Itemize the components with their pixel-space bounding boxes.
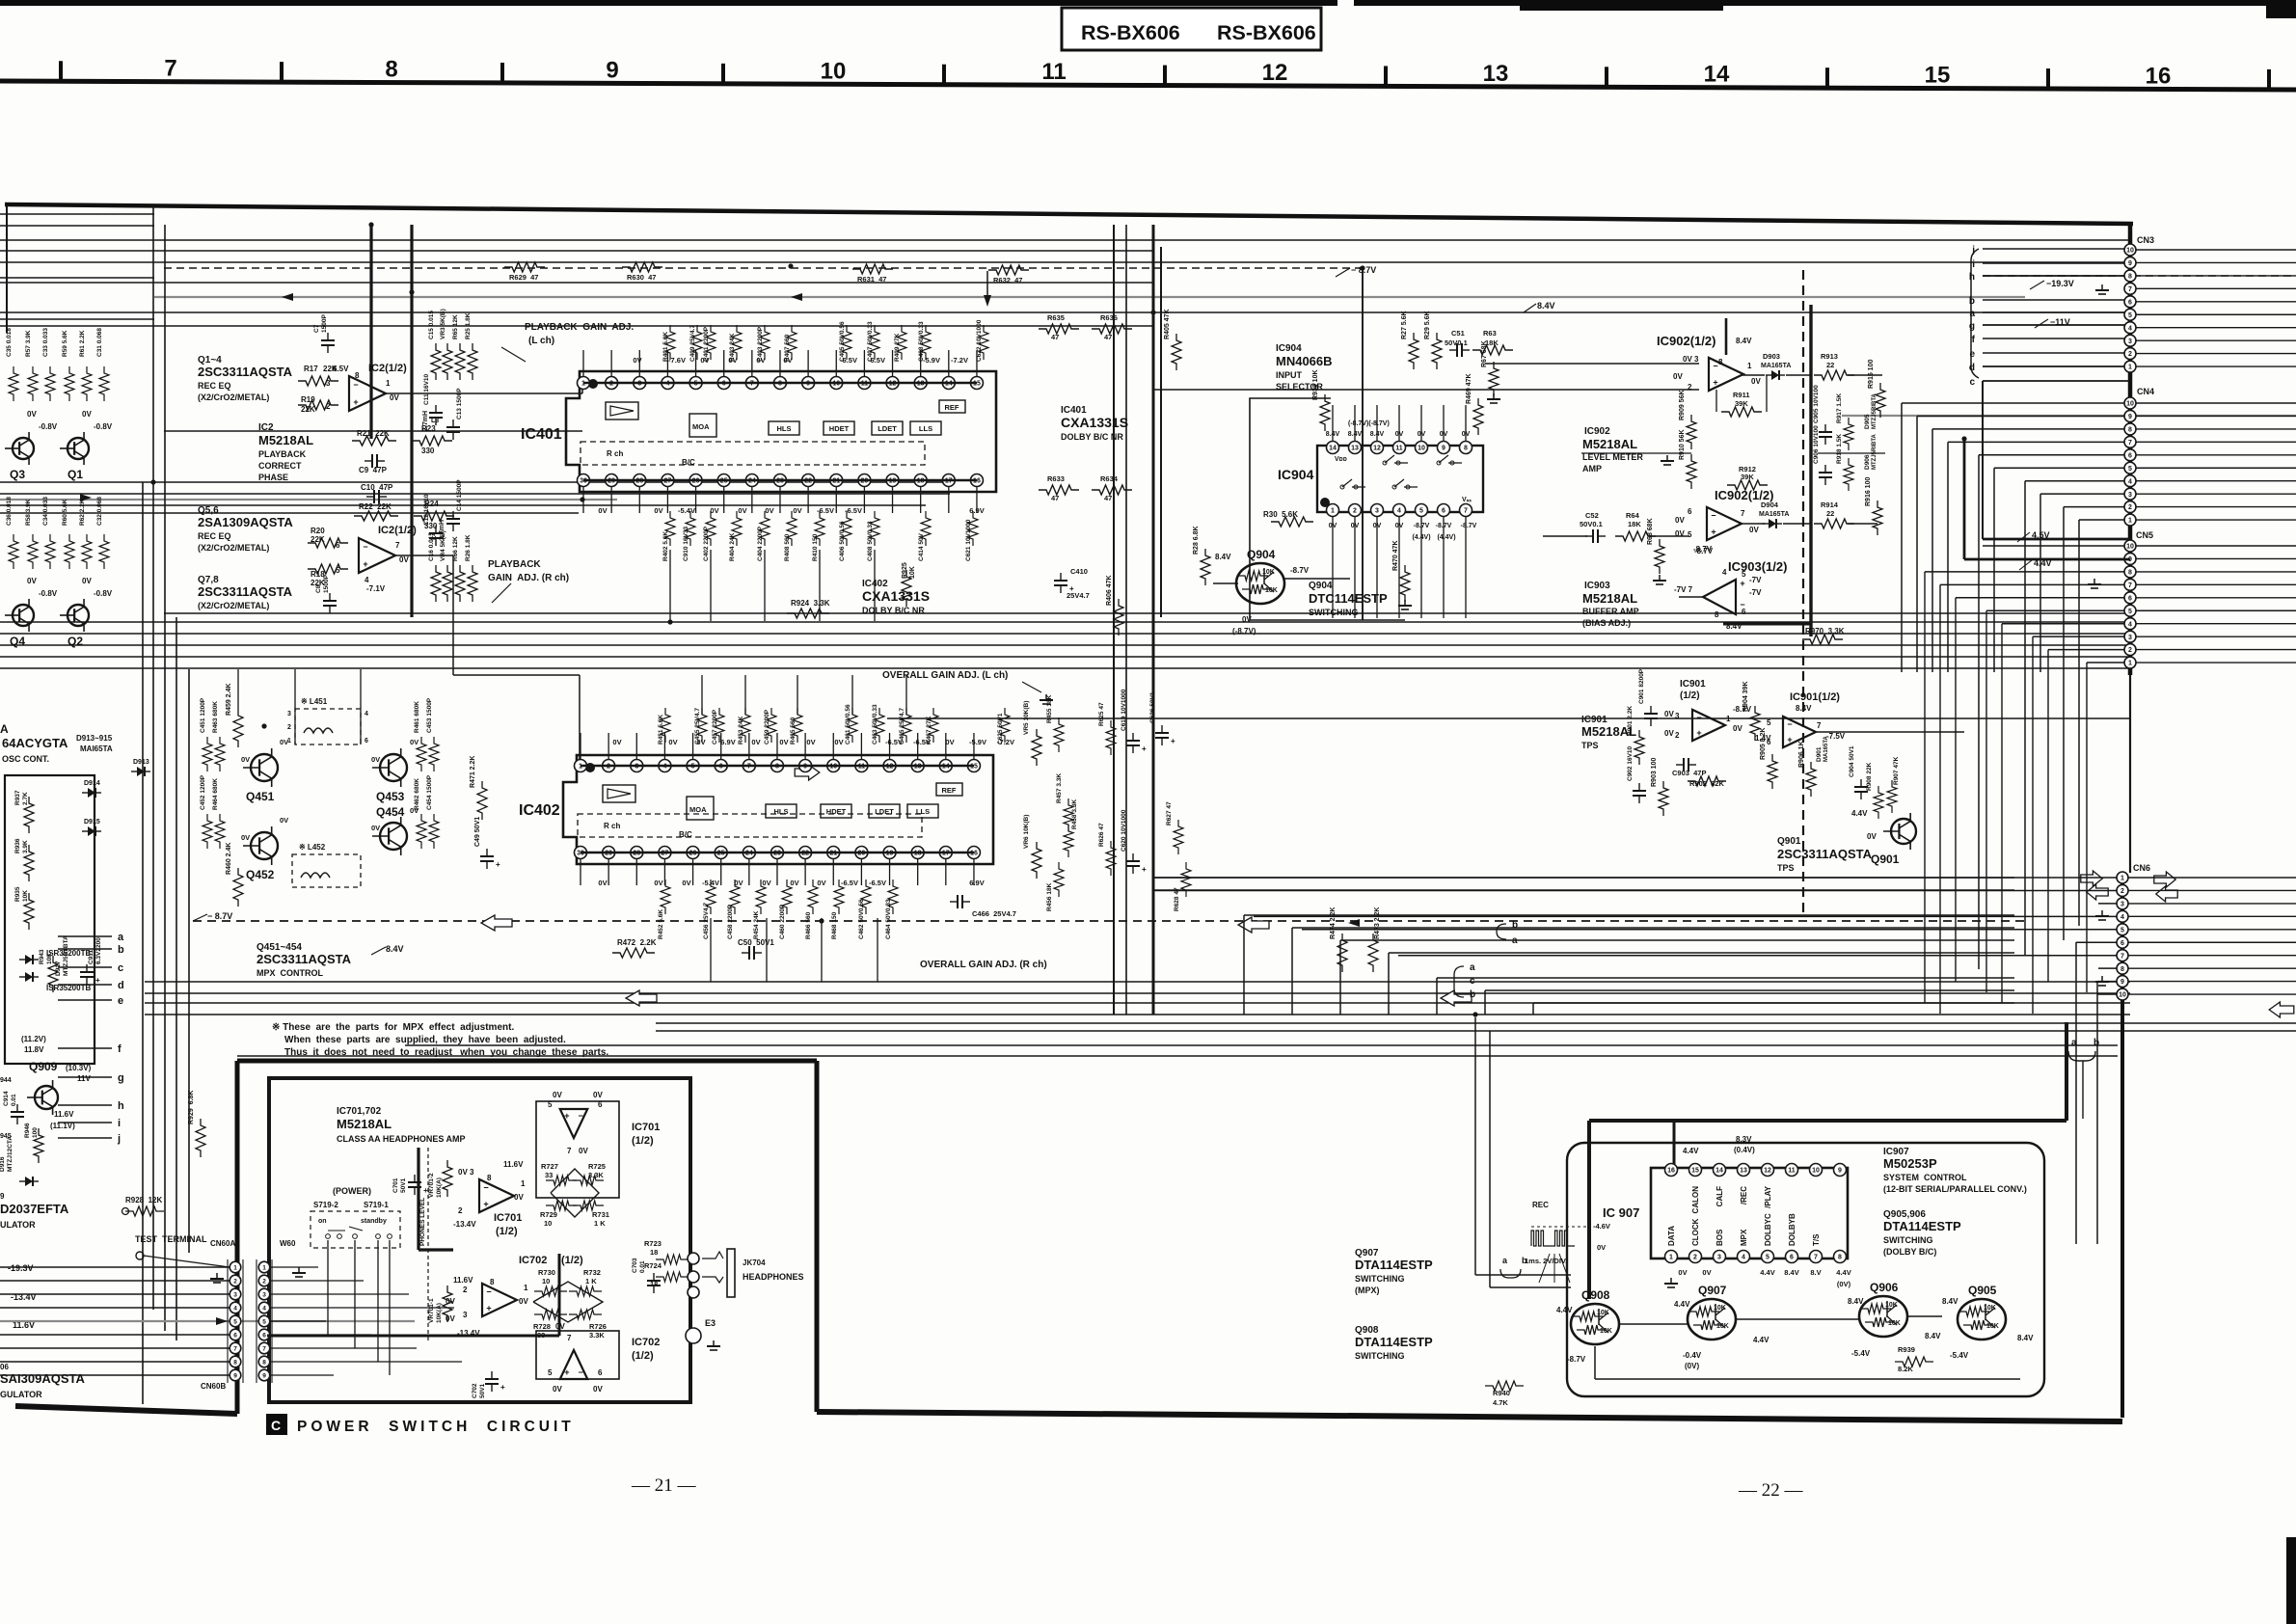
connector CN6 pin 8 (2117, 962, 2128, 974)
capacitor C620 (1132, 866, 1134, 874)
IC401 pin 12 (886, 377, 899, 390)
capacitor C9 (376, 454, 378, 468)
IC402 pin 25 stub (720, 859, 722, 886)
resistor cluster top C35 0.018 (9, 366, 18, 401)
op-amp IC901 second half (1783, 717, 1816, 747)
svg-text:+: + (1171, 737, 1175, 745)
vertical wire above IC402 x940 (905, 675, 907, 715)
right edge wire y312 (2136, 301, 2296, 303)
svg-text:Q909: Q909 (29, 1060, 58, 1073)
svg-text:R904 39K: R904 39K (1742, 681, 1749, 712)
svg-text:CN60A: CN60A (210, 1239, 235, 1248)
IC401 pin 23 stub (779, 487, 781, 514)
open arrow mpx left (481, 915, 512, 931)
svg-text:M50253P: M50253P (1883, 1156, 1937, 1171)
IC402 pin 7 (743, 760, 755, 772)
svg-text:1: 1 (233, 1265, 237, 1272)
svg-text:C408 50V0.33: C408 50V0.33 (867, 521, 874, 561)
svg-text:R64: R64 (1626, 511, 1640, 520)
resistor cluster mid R58 3.9K (28, 534, 38, 569)
connector CN3 pin 2 (2124, 348, 2136, 360)
svg-text:22K: 22K (323, 365, 338, 373)
transistor Q907 bar (1715, 1304, 1716, 1320)
svg-text:330: 330 (421, 447, 435, 455)
transistor Q453 base (372, 767, 389, 769)
ground CN5 pin8 (2091, 587, 2098, 589)
transistor Q452 bar (258, 837, 260, 853)
wire q908 drop b (1489, 1031, 1491, 1287)
svg-text:IC902: IC902 (1584, 426, 1610, 437)
capacitor C904 (1860, 792, 1862, 799)
IC907 pin 1 (1665, 1251, 1678, 1263)
svg-text:(X2/CrO2/METAL): (X2/CrO2/METAL) (198, 601, 269, 610)
IC907 pin 16 (1665, 1164, 1678, 1177)
IC402 pin 15 (967, 760, 980, 772)
connector CN6 pin 9 (2117, 976, 2128, 988)
svg-text:Thus it does not need to: Thus it does not need to readjust when y… (284, 1047, 608, 1058)
ground CN6 pin8 (2095, 981, 2109, 983)
wire into CN4 pin 9 (1917, 415, 2124, 417)
wire into CN5 pin 1 (2087, 662, 2124, 663)
resistor R20 (308, 538, 348, 548)
component C454 1500P (429, 814, 439, 849)
component C460 2200P (782, 880, 792, 914)
svg-text:R473 2.2K: R473 2.2K (1374, 907, 1381, 939)
ground CN60A (216, 1273, 218, 1279)
svg-text:8: 8 (385, 57, 397, 83)
IC907 pin 11 (1786, 1164, 1798, 1177)
IC401 pin 4 (662, 377, 674, 390)
bus wire y681 (0, 656, 2130, 658)
inductor L452 coil (301, 873, 330, 878)
wire W60 pin 5 (270, 1320, 326, 1322)
bus wire y222 left (0, 213, 154, 215)
wire R64 to opamp (1649, 535, 1689, 537)
svg-text:(12-BIT SERIAL/PARALLEL CONV.): (12-BIT SERIAL/PARALLEL CONV.) (1883, 1184, 2027, 1194)
capacitor C466 (962, 901, 970, 903)
wire IC904 pin5 down (1420, 517, 1422, 618)
svg-text:C456 25V4.7: C456 25V4.7 (703, 903, 710, 939)
node i stub (58, 1122, 112, 1123)
resistor R730 (534, 1286, 567, 1296)
IC402 REF block (936, 783, 962, 796)
svg-text:RS-BX606: RS-BX606 (1217, 21, 1316, 44)
svg-text:C458 2200P: C458 2200P (727, 904, 734, 939)
vertical wire above IC402 x773 (744, 675, 746, 715)
capacitor C410 (1060, 585, 1062, 593)
IC401 pin 3 (634, 377, 646, 390)
wire opamp1 out (1742, 374, 1765, 376)
svg-text:SWITCHING: SWITCHING (1355, 1351, 1405, 1361)
resistor R626 (1106, 841, 1116, 876)
svg-text:Vᴅᴅ: Vᴅᴅ (1335, 456, 1347, 463)
connector W60 pin 1 (258, 1261, 270, 1273)
bold wire ic907 top (1589, 1119, 2066, 1123)
transistor Q454 (380, 823, 407, 850)
IC402 pin 27 (659, 847, 671, 859)
resistor R907 (1887, 780, 1897, 813)
wire W60 pin 9 (270, 1374, 334, 1376)
IC402 pin 3 stub (635, 733, 637, 760)
svg-text:0V: 0V (553, 1091, 562, 1099)
bus wire y512 (0, 493, 950, 495)
svg-text:C410: C410 (1070, 567, 1088, 576)
svg-text:h: h (1969, 272, 1975, 283)
svg-text:−: − (1713, 361, 1717, 370)
component C455 25V4.7 (697, 708, 707, 743)
component C457 2200P (715, 708, 724, 743)
svg-text:e: e (1969, 349, 1975, 360)
svg-text:-0.8V: -0.8V (39, 589, 58, 598)
svg-text:IC402: IC402 (519, 802, 560, 819)
svg-text:IC901(1/2): IC901(1/2) (1790, 691, 1840, 703)
svg-text:+: + (486, 1304, 491, 1313)
svg-text:6: 6 (598, 1368, 603, 1377)
resistor R22 22K (354, 511, 398, 521)
IC402 pin 2 (603, 760, 615, 772)
transistor Q907 (1715, 1308, 1725, 1315)
svg-text:M5218AL: M5218AL (337, 1117, 392, 1131)
resistor R724 (656, 1272, 689, 1282)
vertical drop CN4 pin 8 (1931, 429, 1933, 672)
connector W60 pin 8 (258, 1356, 270, 1367)
svg-text:(11.2V): (11.2V) (21, 1035, 46, 1043)
svg-text:3: 3 (1675, 712, 1680, 720)
connector CN60A pin 7 (230, 1342, 241, 1354)
wire IC904 pin11 up (1398, 405, 1400, 441)
transistor Q905 R2 (1963, 1320, 1992, 1330)
IC401 pin 10 (830, 377, 843, 390)
IC402 outline (563, 755, 993, 864)
capacitor C8 (329, 606, 331, 613)
IC401 pin 19 stub (892, 487, 894, 514)
ruler tick 2 (500, 63, 504, 83)
svg-text:11: 11 (1041, 59, 1066, 85)
R928 end circle (122, 1208, 129, 1215)
wire switch drop x404 (389, 1240, 391, 1375)
svg-text:64ACYGTA: 64ACYGTA (2, 736, 68, 750)
IC904 pin 6 (1438, 504, 1450, 517)
switch arm (349, 1227, 363, 1231)
power block outer box top edge (237, 1059, 817, 1064)
capacitor C11 (435, 405, 437, 413)
component R403 24K (732, 325, 742, 360)
svg-text:GULATOR: GULATOR (0, 1390, 42, 1399)
transistor Q3 emit leg (28, 457, 30, 465)
diode D915 (82, 830, 88, 832)
vertical drop CN5 pin 5 (1985, 610, 1987, 992)
pointer 4.5V (2017, 532, 2030, 542)
component R66 12K (455, 565, 465, 602)
connector CN6 pin 2 (2117, 884, 2128, 896)
IC402 pin 1 (575, 760, 587, 772)
IC401 pin 30 stub (582, 487, 584, 514)
IC402 pin 3 (631, 760, 643, 772)
bold vertical wire x1196 (1152, 225, 1155, 1015)
bus wire y1084 (405, 1044, 2118, 1046)
diode isr1 (19, 959, 25, 961)
svg-text:4: 4 (1397, 508, 1401, 515)
IC402 pin 12 stub (889, 733, 891, 760)
svg-text:R627 47: R627 47 (1166, 801, 1173, 826)
svg-text:b: b (1512, 920, 1518, 931)
svg-text:R635: R635 (1047, 313, 1065, 322)
connector CN5 pin 4 (2124, 618, 2136, 630)
ground CN6 pin8 (2098, 985, 2106, 987)
svg-text:IC702: IC702 (519, 1255, 547, 1266)
svg-text:Q453: Q453 (376, 790, 405, 803)
right edge wire y660 (2136, 636, 2296, 637)
IC402 pin 5 stub (692, 733, 694, 760)
resistor R631 (852, 264, 893, 274)
wire into CN4 pin 1 (2079, 519, 2124, 521)
svg-text:C904 50V1: C904 50V1 (1849, 745, 1855, 777)
ruler tick 7 (1605, 67, 1608, 87)
svg-text:W60: W60 (280, 1239, 296, 1248)
svg-text:CALF: CALF (1715, 1186, 1724, 1206)
resistor cluster top R59 5.6K (65, 366, 74, 401)
svg-text:C52: C52 (1585, 511, 1599, 520)
svg-text:LEVEL METER: LEVEL METER (1582, 452, 1643, 462)
svg-text:CALON: CALON (1691, 1186, 1700, 1214)
svg-text:22: 22 (1826, 361, 1834, 369)
transistor Q905 (1958, 1299, 2006, 1340)
svg-text:R939: R939 (1898, 1345, 1915, 1354)
junction dot 0 (409, 289, 414, 294)
component R464 680K (215, 814, 225, 849)
switch symbol 1 (328, 1230, 345, 1232)
component R408 560 (787, 511, 797, 546)
transistor Q453 emit (389, 771, 401, 779)
svg-text:S719-1: S719-1 (364, 1201, 389, 1209)
component C406 50V0.56 (842, 511, 851, 546)
svg-text:BOS: BOS (1715, 1229, 1724, 1246)
svg-text:IC2(1/2): IC2(1/2) (368, 363, 407, 374)
resistor R27 (1409, 333, 1418, 369)
diode D915 (95, 830, 101, 832)
junction dot 2 (788, 263, 793, 268)
IC402 pin 8 stub (776, 733, 778, 760)
transistor Q904 (1264, 572, 1274, 580)
svg-text:DTA114ESTP: DTA114ESTP (1883, 1219, 1961, 1233)
svg-text:D901: D901 (1816, 746, 1823, 762)
transistor Q454 emit (389, 840, 401, 848)
resistor R935 (24, 893, 34, 930)
capacitor C52 (1592, 529, 1594, 543)
svg-text:0.01: 0.01 (639, 1260, 646, 1273)
wire fan CN6 5 (1389, 952, 2014, 954)
wire q908-q907 (1619, 1323, 1688, 1325)
capacitor C911 (80, 971, 94, 973)
connector CN3 pin 8 (2124, 270, 2136, 282)
svg-text:A: A (0, 722, 9, 736)
right edge wire y444 (2136, 428, 2296, 430)
svg-text:7: 7 (2128, 582, 2132, 589)
svg-text:8.2K: 8.2K (1898, 1365, 1913, 1373)
svg-text:3: 3 (1375, 508, 1379, 515)
bottom thick border left segment (15, 1406, 237, 1414)
waveform top dash (1531, 1226, 1589, 1228)
svg-text:a: a (2071, 1038, 2077, 1048)
transistor Q908 bar (1598, 1309, 1600, 1325)
ground R68 (1656, 583, 1663, 585)
transistor Q905 (1985, 1319, 1995, 1328)
svg-text:2.7K: 2.7K (22, 792, 29, 805)
wire opamp2 out (1740, 523, 1765, 525)
IC907 pin 2 (1689, 1251, 1702, 1263)
resistor R67 (1489, 362, 1499, 396)
IC402 pin 16 (967, 847, 980, 859)
svg-text:C16 0.015: C16 0.015 (428, 532, 435, 561)
svg-text:R908 22K: R908 22K (1866, 762, 1873, 791)
inductor L451 coil (304, 728, 333, 733)
svg-text:D915: D915 (84, 819, 100, 826)
svg-text:C402 2200P: C402 2200P (703, 526, 710, 561)
capacitor C51 (1456, 343, 1458, 357)
wire letter b (1983, 299, 2130, 301)
svg-text:R726: R726 (589, 1322, 607, 1331)
IC402 pin 9 (799, 760, 812, 772)
IC401 pin 4 stub (666, 350, 668, 377)
diode D904 (1769, 519, 1776, 528)
svg-text:12: 12 (1262, 60, 1288, 86)
ground CN6 pin3 (2101, 910, 2103, 916)
ground W60 pin1 (295, 1276, 303, 1278)
IC402 pin 14 stub (945, 733, 947, 760)
svg-text:REC EQ: REC EQ (198, 381, 231, 391)
ground R470 (1404, 600, 1406, 606)
capacitor C902 (1633, 795, 1646, 797)
right edge wire y673 (2136, 649, 2296, 651)
connector CN3 pin 9 (2124, 257, 2136, 268)
svg-text:d: d (1969, 363, 1975, 373)
IC401 pin 8 stub (779, 350, 781, 377)
svg-text:7: 7 (2128, 440, 2132, 447)
ground E3 (713, 1340, 715, 1346)
wire into CN5 pin 8 (1925, 571, 2124, 573)
wire to CN6 pin 2 (1153, 889, 2117, 891)
svg-text:※ L451: ※ L451 (301, 697, 328, 706)
capacitor C50 (748, 946, 750, 960)
svg-text:+: + (95, 976, 100, 985)
svg-text:0V: 0V (1664, 729, 1674, 738)
IC401 pin 19 (886, 474, 899, 487)
svg-text:6: 6 (2128, 299, 2132, 306)
svg-text:47: 47 (1104, 494, 1112, 502)
transistor Q906 R2 (1865, 1317, 1894, 1327)
op-amp IC2 first half (349, 376, 386, 411)
component C461 50V0.56 (848, 708, 857, 743)
open arrow ic402 in (795, 765, 820, 780)
svg-text:0V: 0V (598, 506, 607, 515)
transistor Q4 emit (19, 618, 29, 624)
svg-text:5: 5 (1688, 530, 1692, 539)
wire R911 up (1715, 390, 1717, 412)
svg-text:-7V 7: -7V 7 (1674, 585, 1693, 594)
IC904 switch (1394, 479, 1418, 487)
IC401 pin 20 (858, 474, 871, 487)
svg-text:OVERALL GAIN ADJ. (R ch): OVERALL GAIN ADJ. (R ch) (920, 960, 1047, 970)
connector W60 pin 4 (258, 1302, 270, 1313)
component C15 0.015 (431, 343, 441, 380)
svg-text:9: 9 (2120, 979, 2124, 986)
wire to CN60A pin 4 (0, 1307, 230, 1309)
transistor Q4 bar (18, 609, 20, 622)
IC402 pin 9 stub (804, 733, 806, 760)
bold wire 4.5V (1983, 538, 2130, 541)
svg-text:R60 5.6K: R60 5.6K (62, 499, 68, 526)
svg-text:(4.4V): (4.4V) (1437, 534, 1455, 541)
svg-text:22K: 22K (311, 535, 325, 544)
svg-text:10: 10 (1812, 1168, 1820, 1175)
svg-text:R451 5.6K: R451 5.6K (658, 715, 664, 744)
svg-text:C451 1200P: C451 1200P (200, 697, 206, 733)
right edge wire y485 (2136, 467, 2296, 469)
svg-text:R902 82K: R902 82K (1689, 779, 1724, 788)
diode D915 (95, 826, 96, 836)
switch contacts (326, 1234, 331, 1239)
capacitor C620 (1132, 853, 1134, 861)
svg-text:C620 10V1000: C620 10V1000 (1121, 809, 1127, 852)
svg-text:13: 13 (1483, 61, 1509, 87)
capacitor C620 (1126, 865, 1140, 867)
junction dot 9 (1961, 436, 1966, 441)
svg-text:CN60B: CN60B (201, 1382, 226, 1391)
right edge wire y579 (2136, 557, 2296, 559)
svg-text:R ch: R ch (604, 822, 620, 830)
svg-text:c: c (1969, 377, 1975, 388)
node a stub (58, 935, 112, 937)
svg-text:D903: D903 (1763, 352, 1780, 361)
op-amp IC901 first half (1692, 710, 1725, 741)
wire Q904 -8.7V (1283, 578, 1350, 580)
svg-text:0V: 0V (410, 738, 419, 746)
svg-text:−: − (353, 380, 358, 390)
svg-text:c: c (118, 962, 123, 974)
wire switch drop x340 (327, 1240, 329, 1335)
svg-text:R943: R943 (39, 949, 45, 964)
resistor R723 (656, 1255, 689, 1264)
resistor cluster top C31 0.068 (99, 366, 109, 401)
IC401 pin 25 (717, 474, 730, 487)
wire fan CN6 6 (1437, 977, 2014, 979)
diode D916 (33, 1180, 39, 1182)
svg-text:R917 1.5K: R917 1.5K (1836, 393, 1843, 423)
svg-text:9: 9 (606, 57, 618, 83)
svg-text:3: 3 (1717, 1255, 1721, 1261)
bridge IC702 (533, 1282, 603, 1322)
ground E3 (707, 1345, 720, 1347)
svg-text:2: 2 (2128, 647, 2132, 654)
IC402 R ch dashed box (578, 814, 922, 837)
svg-text:R636: R636 (1100, 313, 1118, 322)
right edge wire y339 (2136, 327, 2296, 329)
bottom thick border right segment (817, 1412, 2122, 1421)
svg-text:3: 3 (233, 1292, 237, 1299)
capacitor C619 (1132, 733, 1134, 741)
bus wire y955 (193, 920, 2025, 922)
svg-text:DTA114ESTP: DTA114ESTP (1355, 1258, 1433, 1272)
ruler tick 5 (1163, 66, 1167, 86)
capacitor C701 (414, 1175, 416, 1182)
capacitor C902 (1633, 790, 1646, 792)
wire IC401 pin1 drop (581, 383, 583, 393)
connector rail x282 (271, 1259, 273, 1383)
op-amp IC902 first half (1709, 358, 1743, 391)
svg-text:C455 25V4.7: C455 25V4.7 (694, 708, 701, 744)
ground IC907 pin1 (1664, 1283, 1678, 1285)
resistor R633 (1039, 485, 1079, 495)
